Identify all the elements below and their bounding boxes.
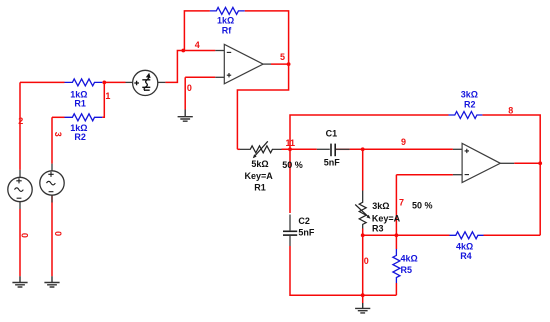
svg-text:R2: R2	[464, 100, 476, 110]
svg-text:Rf: Rf	[222, 25, 232, 35]
svg-text:0: 0	[364, 256, 369, 266]
svg-text:9: 9	[401, 137, 406, 147]
svg-text:R4: R4	[460, 251, 472, 261]
svg-text:4kΩ: 4kΩ	[456, 241, 473, 251]
svg-text:3kΩ: 3kΩ	[461, 90, 478, 100]
svg-text:4: 4	[195, 40, 200, 50]
svg-text:2: 2	[18, 116, 23, 126]
svg-text:8: 8	[508, 105, 513, 115]
svg-text:Key=A: Key=A	[372, 214, 401, 224]
svg-text:R1: R1	[74, 98, 86, 108]
svg-text:R5: R5	[401, 265, 413, 275]
svg-text:5kΩ: 5kΩ	[251, 159, 268, 169]
svg-text:Key=A: Key=A	[244, 171, 273, 181]
svg-text:5: 5	[280, 52, 285, 62]
svg-text:R1: R1	[254, 182, 266, 192]
svg-text:0: 0	[187, 83, 192, 93]
svg-text:3: 3	[53, 132, 63, 137]
svg-text:C2: C2	[298, 216, 310, 226]
svg-text:3kΩ: 3kΩ	[372, 201, 389, 211]
svg-text:1kΩ: 1kΩ	[217, 15, 234, 25]
svg-text:50 %: 50 %	[282, 160, 303, 170]
svg-text:0: 0	[19, 233, 29, 238]
svg-text:4kΩ: 4kΩ	[401, 254, 418, 264]
svg-text:R2: R2	[74, 132, 86, 142]
svg-text:11: 11	[286, 138, 296, 148]
svg-text:1: 1	[105, 91, 110, 101]
svg-text:5nF: 5nF	[298, 227, 315, 237]
svg-text:7: 7	[399, 197, 404, 207]
svg-text:0: 0	[53, 231, 63, 236]
svg-text:5nF: 5nF	[324, 158, 341, 168]
svg-text:C1: C1	[326, 129, 338, 139]
svg-text:50 %: 50 %	[412, 200, 433, 210]
svg-text:R3: R3	[372, 224, 384, 234]
